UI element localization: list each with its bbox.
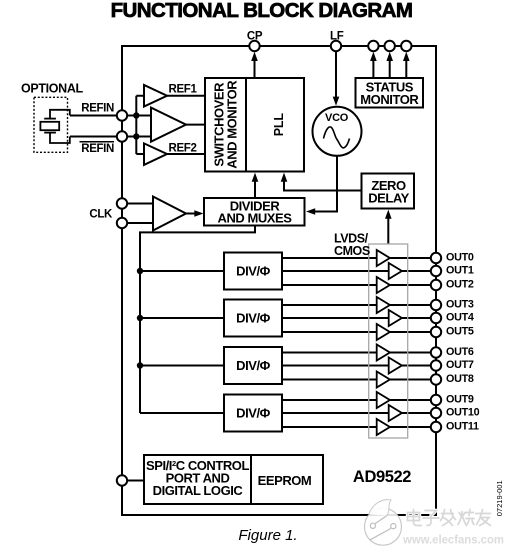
svg-text:www.elecfans.com: www.elecfans.com	[402, 533, 504, 547]
node junction DIV1	[137, 268, 143, 274]
pin SPI	[117, 475, 127, 485]
wire CLK buffer to divider with arrow	[186, 213, 196, 215]
svg-text:OUT10: OUT10	[446, 406, 480, 418]
svg-text:REF1: REF1	[169, 84, 198, 96]
svg-text:OUT1: OUT1	[446, 264, 474, 276]
dashed optional box	[34, 97, 68, 152]
svg-text:OUT5: OUT5	[446, 325, 474, 337]
pin CLK-	[117, 218, 127, 228]
buffer OUT0	[377, 250, 390, 266]
watermark chinese text	[408, 510, 491, 526]
wire SPI pin	[122, 480, 144, 482]
svg-text:AND MUXES: AND MUXES	[218, 210, 293, 225]
wire output rows	[282, 258, 436, 427]
LVDS/CMOS output bank box	[369, 244, 408, 438]
wire REFIN to triangles	[70, 115, 151, 117]
svg-text:AND MONITOR: AND MONITOR	[225, 80, 240, 169]
buffer OUT5	[377, 324, 390, 340]
svg-text:REFIN: REFIN	[81, 103, 114, 115]
svg-text:OUT7: OUT7	[446, 359, 474, 371]
svg-text:AD9522: AD9522	[353, 468, 411, 486]
svg-text:LF: LF	[330, 31, 344, 43]
crystal Y1 (optional)	[40, 110, 69, 143]
buffer OUT11	[377, 419, 390, 435]
buffer OUT9	[377, 392, 390, 408]
wire CLK to buffer	[122, 203, 153, 205]
svg-text:MONITOR: MONITOR	[360, 92, 419, 107]
node junction REFIN	[133, 112, 139, 118]
svg-text:OUT4: OUT4	[446, 311, 474, 323]
svg-text:DIV/Φ: DIV/Φ	[236, 311, 270, 326]
wire to DIV3	[140, 365, 224, 367]
pin OUT1	[431, 266, 441, 276]
svg-text:CP: CP	[247, 31, 263, 43]
svg-text:PLL: PLL	[272, 113, 286, 137]
buffer OUT10	[389, 405, 402, 421]
svg-text:OUT0: OUT0	[446, 251, 474, 263]
block STATUS MONITOR	[356, 78, 424, 108]
pin OUT3	[431, 300, 441, 310]
wire to DIV1	[140, 270, 224, 272]
buffer REF1	[144, 85, 167, 107]
block DIV2	[224, 300, 282, 337]
wire REF2 out	[167, 153, 205, 155]
buffer OUT3	[377, 297, 390, 313]
oscillator VCO	[313, 107, 362, 156]
wire to REF1 buffer	[136, 95, 144, 97]
svg-text:OUT8: OUT8	[446, 373, 474, 385]
svg-text:Figure 1.: Figure 1.	[238, 527, 297, 544]
pin CLK+	[117, 198, 127, 208]
node junction DIV2	[137, 315, 143, 321]
pin CP	[249, 41, 259, 51]
watermark logo disc	[365, 500, 402, 546]
pin STATUS1	[385, 41, 395, 51]
buffer OUT7	[389, 358, 402, 374]
svg-text:DIGITAL LOGIC: DIGITAL LOGIC	[153, 483, 244, 498]
pin OUT4	[431, 313, 441, 323]
svg-text:OUT2: OUT2	[446, 278, 474, 290]
block DIV4	[224, 395, 282, 432]
svg-text:DIV/Φ: DIV/Φ	[236, 264, 270, 279]
wire divider distribution	[140, 226, 255, 414]
svg-text:OUT6: OUT6	[446, 346, 474, 358]
svg-text:REF2: REF2	[169, 143, 197, 155]
pin OUT10	[431, 408, 441, 418]
block SPI control port	[144, 455, 251, 504]
wire status arrow 1	[372, 60, 374, 78]
pin OUT11	[431, 422, 441, 432]
svg-text:REFIN: REFIN	[81, 143, 114, 155]
buffer OUT8	[377, 372, 390, 388]
svg-text:OUT11: OUT11	[446, 420, 479, 432]
block DIV1	[224, 253, 282, 290]
buffer OUT1	[389, 263, 402, 279]
pin REFIN	[117, 110, 127, 120]
wire divider to PLL	[254, 180, 256, 198]
svg-text:DELAY: DELAY	[368, 190, 409, 205]
pin STATUS0	[368, 41, 378, 51]
svg-text:DIV/Φ: DIV/Φ	[236, 358, 270, 373]
svg-text:OUT9: OUT9	[446, 393, 474, 405]
wire REF1 out	[167, 95, 205, 97]
wire zero delay to PLL feedback	[284, 180, 362, 191]
buffer OUT4	[389, 310, 402, 326]
buffer differential reference	[151, 108, 186, 142]
svg-text:VCO: VCO	[325, 112, 349, 124]
node junction DIV3	[137, 362, 143, 368]
wire to REF2 buffer	[136, 153, 144, 155]
buffer OUT2	[377, 277, 390, 293]
svg-text:DIV/Φ: DIV/Φ	[236, 406, 270, 421]
block EEPROM	[251, 455, 323, 504]
wire vertical ref distribution	[135, 96, 137, 154]
wire into zero delay from outputs	[387, 217, 389, 244]
buffer CLK	[153, 197, 186, 231]
pin OUT0	[431, 253, 441, 263]
pin REFINB	[117, 131, 127, 141]
wire PLL to CP with arrow	[254, 59, 256, 78]
svg-text:07219-001: 07219-001	[495, 480, 504, 516]
buffer OUT6	[377, 345, 390, 361]
pin OUT8	[431, 374, 441, 384]
wire LF to VCO with arrow	[335, 46, 337, 97]
block DIV3	[224, 347, 282, 384]
wire ref buffer out	[186, 124, 205, 126]
svg-text:OUT3: OUT3	[446, 298, 474, 310]
svg-text:CMOS: CMOS	[334, 244, 370, 258]
chip outline AD9522	[122, 46, 436, 515]
block PLL	[246, 78, 304, 172]
wire status arrow 2	[389, 60, 391, 78]
wire VCO down to divider	[314, 156, 337, 212]
block DIVIDER AND MUXES	[204, 198, 305, 226]
pin LF	[331, 41, 341, 51]
pin OUT9	[431, 395, 441, 405]
wire status arrow 3	[405, 60, 407, 78]
svg-text:FUNCTIONAL BLOCK DIAGRAM: FUNCTIONAL BLOCK DIAGRAM	[111, 0, 413, 22]
pin OUT6	[431, 347, 441, 357]
wire to DIV2	[140, 317, 224, 319]
block ZERO DELAY	[362, 174, 415, 209]
node junction REFINB	[133, 133, 139, 139]
pin OUT7	[431, 360, 441, 370]
buffer REF2	[144, 143, 167, 165]
pin STATUS2	[401, 41, 411, 51]
block SWITCHOVER AND MONITOR	[205, 78, 246, 172]
wire REFINB to triangles	[70, 136, 151, 138]
pin OUT5	[431, 327, 441, 337]
pin OUT2	[431, 280, 441, 290]
wire to DIV4	[140, 412, 224, 414]
svg-text:CLK: CLK	[89, 209, 113, 221]
svg-text:EEPROM: EEPROM	[258, 473, 312, 488]
svg-text:OPTIONAL: OPTIONAL	[21, 81, 83, 95]
